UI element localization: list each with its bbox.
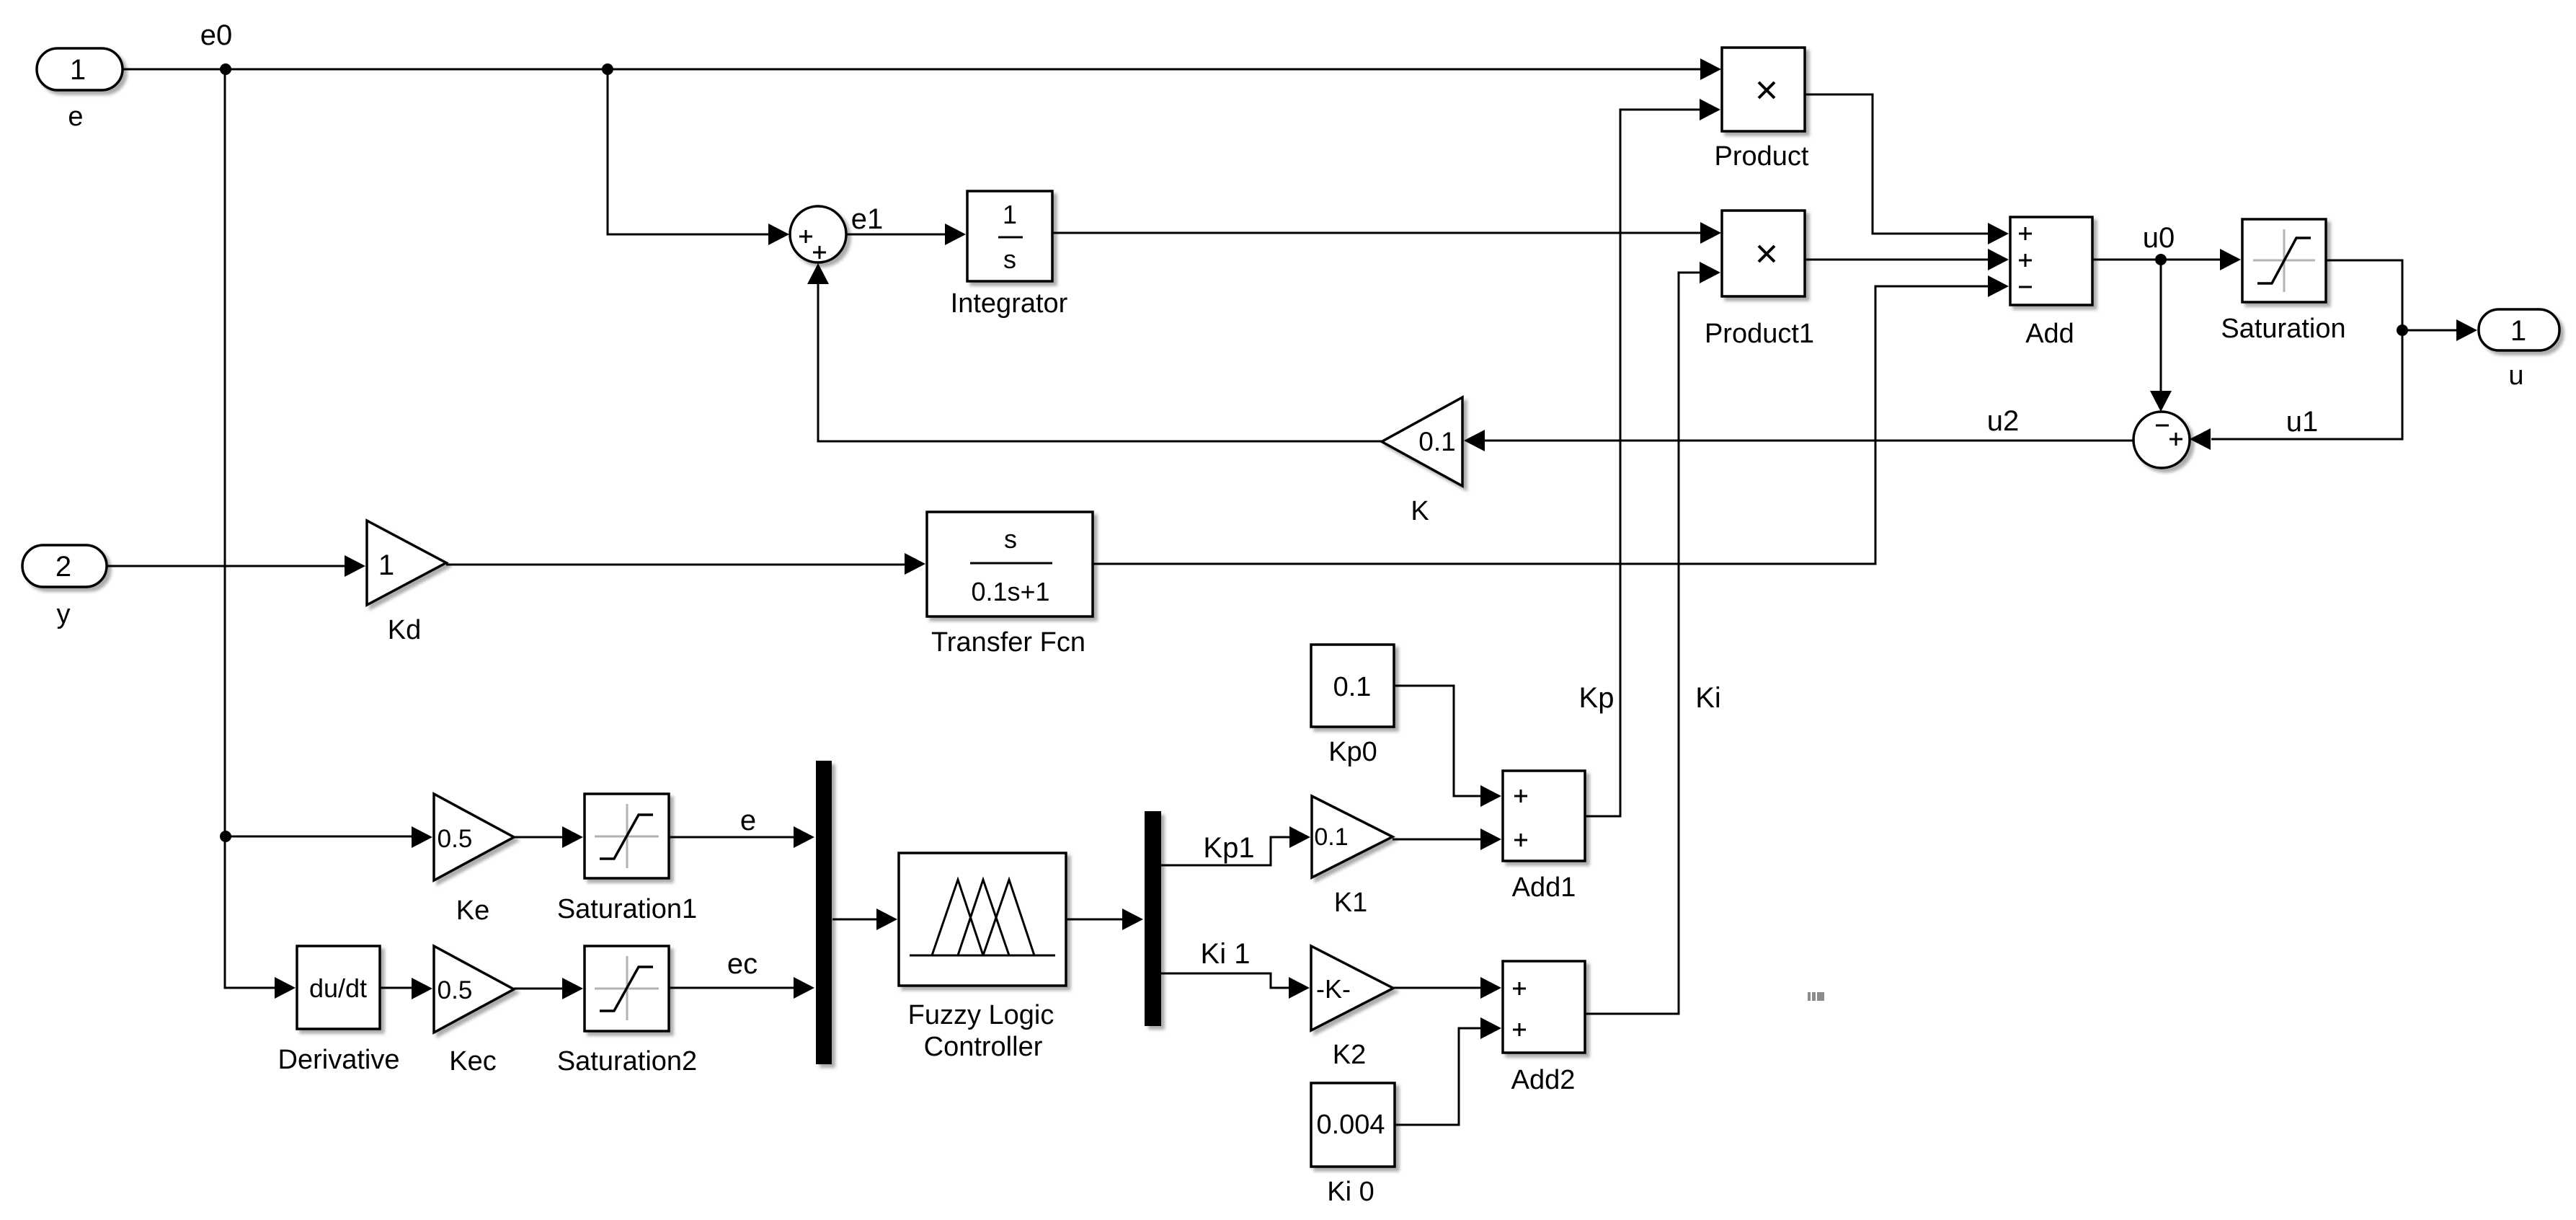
svg-text:Ki: Ki <box>1695 682 1721 714</box>
svg-text:K2: K2 <box>1333 1040 1366 1070</box>
svg-text:2: 2 <box>55 551 71 583</box>
svg-text:0.1: 0.1 <box>1418 427 1455 456</box>
svg-text:u0: u0 <box>2143 222 2175 254</box>
svg-text:s: s <box>1004 524 1017 554</box>
svg-text:K1: K1 <box>1334 888 1367 918</box>
svg-text:0.5: 0.5 <box>438 976 473 1004</box>
svg-text:e: e <box>740 805 756 836</box>
svg-text:0.1s+1: 0.1s+1 <box>971 577 1049 606</box>
svg-text:e0: e0 <box>200 19 233 51</box>
svg-text:Kp1: Kp1 <box>1203 832 1254 864</box>
svg-text:Ki 0: Ki 0 <box>1327 1177 1374 1207</box>
svg-text:Kec: Kec <box>449 1046 496 1077</box>
svg-text:y: y <box>57 599 71 629</box>
svg-text:1: 1 <box>1003 200 1017 229</box>
svg-text:Product1: Product1 <box>1705 319 1814 349</box>
svg-text:ec: ec <box>727 948 758 980</box>
svg-text:Kd: Kd <box>388 615 421 645</box>
svg-text:u: u <box>2508 361 2523 391</box>
svg-text:du/dt: du/dt <box>309 973 367 1003</box>
svg-text:Add: Add <box>2025 319 2074 349</box>
svg-text:0.5: 0.5 <box>438 825 473 853</box>
svg-text:1: 1 <box>378 549 394 581</box>
svg-text:K: K <box>1411 496 1429 526</box>
svg-text:Add2: Add2 <box>1511 1065 1576 1095</box>
svg-text:Controller: Controller <box>924 1032 1043 1062</box>
svg-text:Ki 1: Ki 1 <box>1201 938 1251 970</box>
svg-text:u1: u1 <box>2286 406 2319 438</box>
svg-text:Integrator: Integrator <box>951 288 1068 319</box>
svg-text:Fuzzy Logic: Fuzzy Logic <box>908 1000 1054 1030</box>
svg-text:0.1: 0.1 <box>1314 823 1348 851</box>
svg-text:Transfer Fcn: Transfer Fcn <box>931 627 1085 658</box>
svg-text:Saturation: Saturation <box>2221 314 2345 344</box>
svg-text:e1: e1 <box>851 203 884 235</box>
svg-text:Add1: Add1 <box>1512 872 1576 903</box>
svg-text:Ke: Ke <box>456 896 489 926</box>
svg-text:Saturation1: Saturation1 <box>557 894 697 924</box>
svg-text:Kp: Kp <box>1579 682 1615 714</box>
svg-text:0.004: 0.004 <box>1316 1110 1385 1140</box>
svg-text:0.1: 0.1 <box>1333 672 1372 702</box>
svg-text:1: 1 <box>70 54 86 86</box>
svg-text:1: 1 <box>2510 315 2526 347</box>
svg-text:s: s <box>1003 244 1016 274</box>
svg-text:Kp0: Kp0 <box>1328 737 1377 767</box>
svg-text:Product: Product <box>1715 141 1809 172</box>
svg-text:u2: u2 <box>1987 405 2020 437</box>
svg-text:Saturation2: Saturation2 <box>557 1046 697 1077</box>
svg-text:Derivative: Derivative <box>278 1045 400 1075</box>
svg-text:e: e <box>68 102 83 132</box>
svg-text:-K-: -K- <box>1316 974 1351 1004</box>
